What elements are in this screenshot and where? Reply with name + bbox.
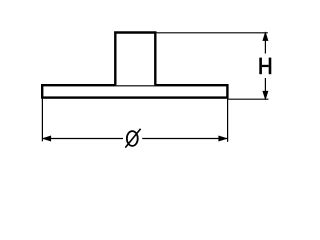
dimension H vertical line lower segment bbox=[264, 78, 266, 99]
label H bbox=[259, 58, 271, 75]
dimension line diameter right segment bbox=[142, 138, 227, 140]
arrowhead left (diameter) bbox=[42, 136, 52, 142]
extension line from plate bottom right bbox=[228, 98, 268, 100]
dimension H vertical line upper segment bbox=[264, 33, 266, 54]
extension line below plate left bbox=[41, 98, 43, 142]
dimension line diameter left segment bbox=[43, 138, 124, 140]
stem (plug body) outline bbox=[115, 33, 155, 86]
diameter symbol slash bbox=[125, 129, 140, 148]
arrowhead up (H top) bbox=[262, 31, 268, 41]
extension line below plate right bbox=[227, 98, 229, 142]
arrowhead down (H bottom) bbox=[262, 91, 268, 101]
arrowhead right (diameter) bbox=[218, 136, 228, 142]
flange plate outline bbox=[42, 85, 227, 97]
extension line from stem top bbox=[157, 32, 268, 34]
diameter symbol O ellipse bbox=[127, 131, 138, 146]
